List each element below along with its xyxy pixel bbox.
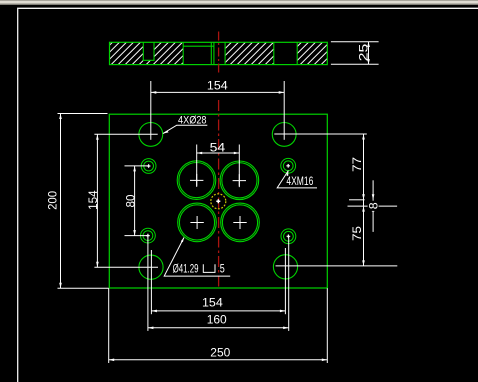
svg-text:154: 154	[202, 296, 223, 310]
svg-text:54: 54	[210, 140, 226, 154]
arrows 154 bottom	[151, 310, 157, 313]
cross big BR	[233, 216, 246, 229]
M16 hole TL	[141, 159, 156, 174]
dim 154 bottom line	[151, 310, 285, 312]
right ext at y134	[274, 133, 367, 135]
cross big TR	[233, 174, 246, 187]
svg-text:25: 25	[356, 44, 370, 62]
hatch left band	[110, 42, 143, 64]
hatch under blind hole	[143, 60, 154, 64]
dim 80 ext top	[125, 165, 149, 167]
arrows 160	[148, 327, 154, 330]
svg-text:5: 5	[220, 264, 225, 276]
center pick dot	[216, 199, 220, 203]
leader 4xM16	[277, 171, 317, 188]
dim 80 ext bottom	[125, 235, 148, 237]
arrows 250	[109, 359, 115, 362]
section outline	[110, 42, 328, 64]
svg-text:77: 77	[350, 157, 364, 172]
hatch band 2	[154, 42, 183, 64]
dim 154 left ext bottom	[94, 266, 158, 268]
right ext at y199.8	[349, 199, 365, 201]
arrows 154 left	[96, 134, 99, 140]
plate outline	[109, 114, 327, 288]
dim 8 line	[372, 180, 374, 232]
big hole TR	[220, 161, 259, 200]
dim 200 line	[60, 114, 62, 289]
dim 54 ext left	[196, 145, 198, 186]
cross big BL	[190, 216, 203, 229]
corner hole TL	[139, 122, 163, 146]
arrows 200	[59, 114, 62, 120]
dim 54 ext right	[238, 145, 240, 186]
svg-text:80: 80	[124, 194, 138, 207]
svg-text:160: 160	[207, 313, 227, 327]
svg-text:75: 75	[350, 226, 364, 241]
svg-text:Ø41.29: Ø41.29	[173, 264, 199, 276]
hatch band 3	[226, 42, 274, 64]
central counterbore hole section	[184, 43, 211, 64]
dim 80 line	[134, 166, 136, 236]
arrow leader O28	[163, 131, 169, 134]
dim 200 ext bottom	[58, 287, 109, 289]
hatch band 4	[297, 42, 327, 64]
big hole BL	[178, 203, 217, 242]
corner hole BL	[139, 255, 163, 279]
cross big TL	[190, 174, 203, 187]
dim 160 line	[148, 327, 289, 329]
dim 250 ext right	[326, 288, 328, 363]
dim 154 top line	[151, 91, 284, 93]
dim 154 bottom ext right	[284, 248, 286, 314]
arrows 77-75	[362, 134, 365, 140]
svg-text:250: 250	[210, 345, 230, 359]
M16 hole BL	[141, 228, 156, 243]
dim 154 top ext right	[283, 81, 285, 140]
dim 160 ext left	[147, 236, 149, 331]
dim 154 left line	[96, 134, 98, 267]
right ext at y206.1	[348, 205, 398, 207]
section centerline	[218, 32, 220, 74]
right ext at y265.9	[276, 265, 398, 267]
arrows 154 top	[151, 91, 157, 94]
dim 154 left ext top	[94, 133, 157, 135]
big hole TL	[177, 161, 216, 200]
svg-text:4XØ28: 4XØ28	[178, 115, 207, 127]
svg-text:154: 154	[207, 79, 228, 93]
dim 25 extension top	[331, 41, 379, 43]
blind hole M16 section	[144, 43, 154, 60]
arrows 8	[372, 194, 375, 200]
dim 77-75 line	[363, 134, 365, 266]
arrows 80	[133, 166, 136, 172]
arrow leader M16	[286, 171, 288, 177]
dim 154 bottom ext left	[150, 250, 152, 314]
arrow leader O41	[181, 238, 184, 243]
arrows 54	[197, 152, 203, 155]
dim 54 line	[197, 152, 240, 154]
toolbar sliver	[0, 0, 478, 5]
dim 25 line	[368, 42, 370, 65]
center hole selected (yellow dashed)	[211, 194, 226, 209]
main centerline	[218, 100, 220, 288]
big hole BR	[221, 203, 260, 242]
corner hole TR	[272, 122, 296, 146]
dim 250 line	[109, 359, 328, 361]
dim 160 ext right	[288, 236, 290, 331]
M16 hole BR	[281, 229, 296, 244]
text 8	[367, 201, 381, 211]
arrowheads	[59, 91, 374, 361]
svg-text:200: 200	[46, 191, 60, 210]
dim 154 top ext left	[150, 81, 152, 140]
dim 250 ext left	[108, 288, 110, 363]
svg-text:154: 154	[86, 190, 100, 210]
leader O41.29	[164, 238, 230, 277]
M16 hole TR	[281, 158, 296, 173]
svg-text:8: 8	[367, 202, 381, 209]
leader 4xO28	[163, 125, 207, 133]
counterbore symbol	[203, 264, 215, 272]
corner hole section	[274, 43, 297, 64]
corner hole BR	[273, 255, 297, 279]
dim 25 extension bottom	[331, 63, 379, 65]
central hole right of thread strip	[215, 43, 225, 64]
dim 200 ext top	[58, 113, 108, 115]
svg-text:4XM16: 4XM16	[286, 175, 313, 188]
